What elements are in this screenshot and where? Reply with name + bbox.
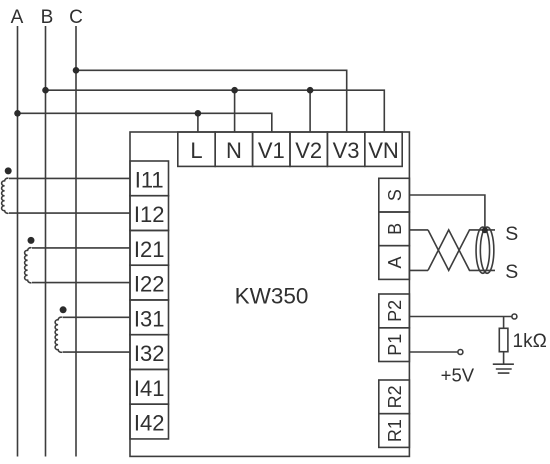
- terminal I42: [130, 404, 169, 439]
- svg-text:+5V: +5V: [441, 364, 475, 385]
- CT1 polarity dot: [5, 167, 12, 174]
- wire node to resistor: [503, 317, 505, 329]
- resistor R 1k body: [499, 328, 508, 351]
- svg-text:V3: V3: [333, 138, 360, 163]
- svg-text:C: C: [69, 7, 83, 28]
- wire B terminal to twisted pair: [409, 229, 428, 231]
- wire P2 to pull-up node: [409, 316, 512, 318]
- ground symbol: [493, 364, 514, 373]
- svg-text:V2: V2: [295, 138, 322, 163]
- wire stub L: [197, 113, 199, 132]
- terminal I12: [130, 196, 169, 231]
- svg-text:I11: I11: [135, 167, 164, 192]
- phase line B: [45, 26, 47, 457]
- svg-text:R1: R1: [385, 419, 405, 442]
- open terminal circle P1: [458, 350, 463, 355]
- svg-text:B: B: [41, 7, 54, 28]
- svg-text:L: L: [190, 138, 202, 163]
- terminal I21: [130, 231, 169, 266]
- svg-text:R2: R2: [385, 385, 405, 408]
- svg-text:B: B: [385, 223, 405, 235]
- junction dot V2: [307, 87, 314, 94]
- terminal R2: [379, 380, 410, 414]
- cable shield loop 2: [480, 227, 494, 273]
- terminal P1: [379, 328, 410, 362]
- svg-text:I42: I42: [134, 411, 165, 436]
- wire stub N: [234, 90, 236, 132]
- svg-text:A: A: [11, 7, 24, 28]
- junction dot L: [195, 110, 202, 117]
- shield junction dot: [482, 227, 488, 233]
- terminal V1: [253, 132, 290, 166]
- terminal I41: [130, 369, 169, 404]
- terminal I32: [130, 335, 169, 370]
- svg-text:I12: I12: [134, 202, 165, 227]
- svg-text:VN: VN: [368, 138, 399, 163]
- CT3 coil: [55, 317, 62, 352]
- CT2 polarity dot: [28, 237, 35, 244]
- CT2 secondary wires to I21 I22: [32, 248, 130, 283]
- terminal B: [379, 212, 410, 246]
- wire A terminal to twisted pair: [409, 269, 428, 271]
- CT2 coil: [25, 248, 32, 283]
- terminal I22: [130, 265, 169, 300]
- phase line C: [75, 26, 77, 457]
- junction dot C: [73, 67, 80, 74]
- twisted pair wire 2: [428, 230, 495, 271]
- junction dot B: [42, 87, 49, 94]
- open terminal circle P2: [512, 314, 517, 319]
- phase line A: [17, 26, 19, 457]
- svg-text:S: S: [385, 189, 405, 201]
- svg-text:I41: I41: [134, 376, 165, 401]
- svg-text:S: S: [505, 261, 518, 283]
- wire S to shield: [409, 195, 485, 230]
- wire B to N,V2,VN: [46, 90, 385, 132]
- svg-text:I31: I31: [134, 306, 165, 331]
- svg-text:N: N: [226, 138, 242, 163]
- junction dot N: [231, 87, 238, 94]
- svg-text:1kΩ: 1kΩ: [513, 331, 547, 352]
- twisted pair wire 1: [428, 230, 495, 271]
- terminal A: [379, 246, 410, 280]
- terminal P2: [379, 294, 410, 328]
- svg-text:KW350: KW350: [235, 284, 309, 309]
- cable shield loop 1: [476, 227, 490, 273]
- CT1 coil: [2, 178, 9, 213]
- svg-text:I22: I22: [134, 272, 165, 297]
- wire P1 to +5V: [409, 351, 458, 353]
- svg-text:I21: I21: [134, 237, 165, 262]
- terminal I11: [130, 161, 169, 196]
- svg-text:P1: P1: [385, 334, 405, 356]
- svg-text:S: S: [505, 223, 518, 245]
- svg-text:P2: P2: [385, 300, 405, 322]
- svg-text:I32: I32: [134, 341, 165, 366]
- terminal V3: [327, 132, 364, 166]
- wire A to L,V1: [18, 113, 272, 132]
- device outline KW350: [130, 132, 409, 456]
- terminal R1: [379, 414, 410, 448]
- svg-text:V1: V1: [258, 138, 285, 163]
- CT3 polarity dot: [60, 306, 67, 313]
- wire C to V3: [76, 70, 347, 132]
- terminal V2: [290, 132, 327, 166]
- terminal I31: [130, 300, 169, 335]
- CT3 secondary wires to I31 I32: [63, 317, 131, 352]
- terminal N: [215, 132, 252, 166]
- terminal S: [379, 178, 410, 212]
- junction dot A: [14, 110, 21, 117]
- svg-text:A: A: [385, 256, 405, 268]
- terminal VN: [365, 132, 402, 166]
- wire resistor to ground: [503, 352, 505, 365]
- wire stub V2: [309, 90, 311, 132]
- CT1 secondary wires to I11 I12: [9, 178, 130, 213]
- terminal L: [178, 132, 215, 166]
